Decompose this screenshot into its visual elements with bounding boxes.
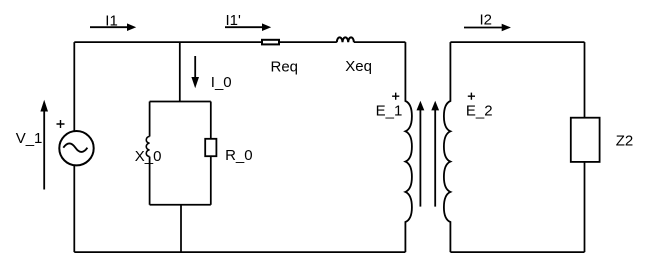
current arrow I1' xyxy=(225,26,264,28)
wire right rail lower xyxy=(584,162,586,252)
wire shunt left upper xyxy=(149,102,151,137)
wire secondary top rail xyxy=(450,41,584,43)
svg-text:I_0: I_0 xyxy=(211,74,232,91)
wire between Req and Xeq xyxy=(280,41,337,43)
source V1 sine xyxy=(63,143,87,152)
source V1 circle xyxy=(59,131,93,165)
svg-text:E_2: E_2 xyxy=(466,103,493,120)
inductor Xeq xyxy=(337,37,354,42)
wire shunt right lower xyxy=(210,157,212,205)
wire shunt bottom rail xyxy=(150,204,211,206)
svg-text:Z2: Z2 xyxy=(616,132,634,149)
svg-text:Req: Req xyxy=(271,58,299,75)
current arrow I_0 xyxy=(194,56,196,80)
svg-text:I2: I2 xyxy=(480,11,493,28)
svg-text:Xeq: Xeq xyxy=(345,58,372,75)
wire shunt left lower xyxy=(149,157,151,205)
wire junction drop xyxy=(179,42,181,102)
wire left rail lower xyxy=(73,166,75,253)
plus sign E_2 xyxy=(468,93,475,100)
svg-text:I1': I1' xyxy=(226,12,242,29)
svg-text:I1: I1 xyxy=(105,13,118,30)
transformer flux arrow left xyxy=(419,108,421,207)
transformer primary winding xyxy=(405,42,412,252)
load Z2 xyxy=(571,118,600,162)
wire shunt right upper xyxy=(210,102,212,139)
current arrow I2 xyxy=(464,27,503,29)
wire shunt bottom drop xyxy=(180,205,182,252)
transformer flux arrow right xyxy=(434,108,436,207)
wire left rail upper xyxy=(73,42,75,131)
plus sign E_1 xyxy=(392,93,399,100)
svg-text:R_0: R_0 xyxy=(225,147,253,164)
resistor Req xyxy=(262,40,279,45)
wire secondary bottom rail xyxy=(450,251,584,253)
voltage arrow V_1 xyxy=(43,110,45,190)
wire right rail upper xyxy=(584,42,586,117)
wire top rail left xyxy=(74,41,261,43)
current arrow I1 xyxy=(90,26,129,28)
wire shunt top rail xyxy=(150,101,211,103)
transformer secondary winding xyxy=(444,42,451,252)
resistor R_0 xyxy=(205,139,216,156)
wire bottom rail left xyxy=(74,251,405,253)
svg-text:X_0: X_0 xyxy=(135,148,162,165)
svg-text:V_1: V_1 xyxy=(16,130,43,147)
plus sign V1 xyxy=(57,120,65,128)
wire Xeq to primary corner xyxy=(354,41,406,43)
svg-text:E_1: E_1 xyxy=(376,103,403,120)
inductor X_0 xyxy=(146,137,149,157)
